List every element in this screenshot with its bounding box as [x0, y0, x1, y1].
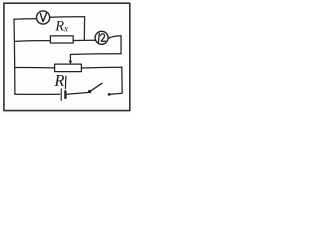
wire Rx row left: [14, 40, 50, 43]
rheostat R' box: [55, 64, 82, 72]
svg-text:R: R: [53, 71, 64, 90]
wire right vertical (rheostat to bottom row): [121, 67, 123, 93]
wire top row left (to voltmeter): [14, 18, 36, 21]
voltmeter V: [37, 11, 50, 24]
wire top row right: [50, 16, 85, 19]
wire ammeter to right corner: [108, 36, 121, 39]
wire rheostat row left: [15, 66, 55, 68]
label V (voltmeter): [40, 13, 46, 22]
rheostat slider arrowhead: [69, 61, 72, 65]
label A (ammeter): [97, 33, 100, 42]
switch blade: [90, 83, 102, 91]
rheostat slider stem: [69, 55, 71, 62]
ammeter A: [95, 31, 108, 44]
resistor Rx: [50, 36, 73, 43]
wire left vertical: [13, 19, 16, 94]
wire battery to switch: [67, 93, 88, 95]
wire right vertical (ammeter to slider wire): [120, 36, 122, 54]
switch contact dot right: [108, 93, 111, 96]
figure border frame: [4, 3, 130, 110]
wire voltmeter branch drop: [83, 17, 85, 41]
wire bottom row left (to battery): [15, 93, 60, 95]
battery long plate: [60, 89, 62, 101]
svg-text:Rx: Rx: [54, 18, 69, 34]
wire rheostat row right: [81, 66, 121, 69]
battery short plate: [64, 91, 66, 98]
switch contact dot left: [88, 90, 91, 93]
label R1 downstroke: [64, 76, 67, 88]
wire Rx to ammeter: [73, 39, 95, 41]
wire slider horizontal: [71, 53, 122, 56]
wire switch to bottom-right corner: [111, 93, 123, 94]
